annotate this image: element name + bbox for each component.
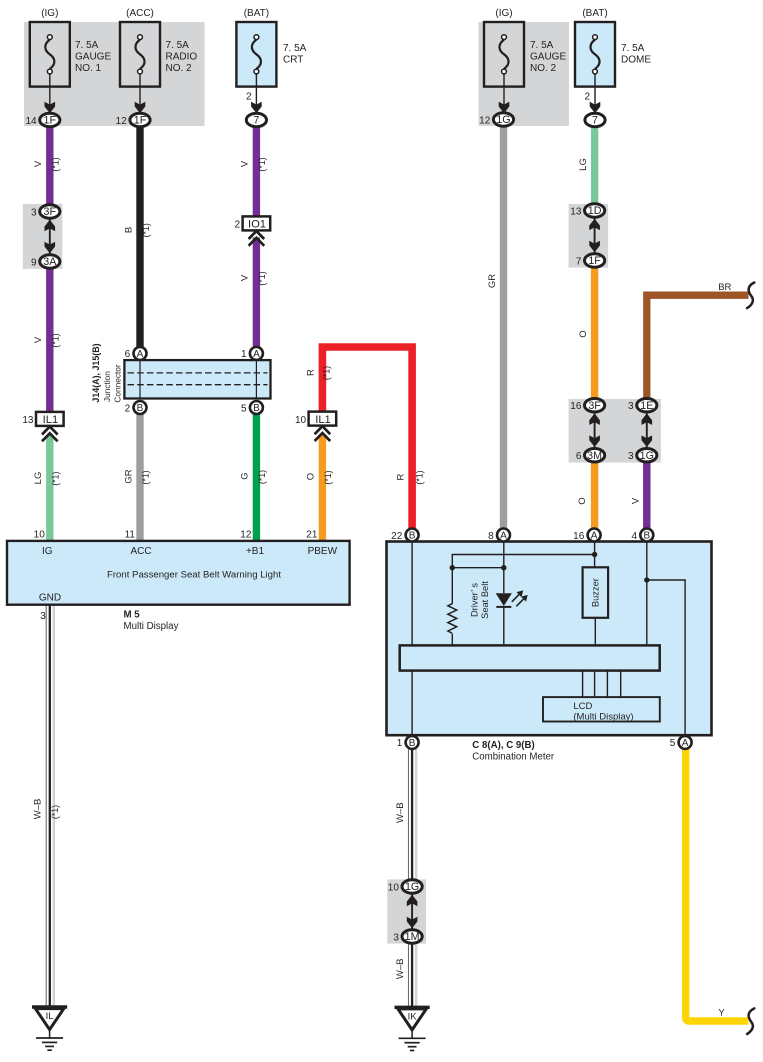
svg-text:1G: 1G — [405, 881, 419, 893]
gray panel behind IG/ACC fuses — [24, 22, 205, 126]
wire V violet: IO1 to junction 1A — [253, 238, 260, 348]
junction node dot on 16A line — [592, 552, 597, 557]
svg-text:(*1): (*1) — [141, 223, 151, 237]
svg-text:(*1): (*1) — [321, 366, 331, 380]
junction connector J14(A), J15(B) body — [124, 360, 270, 398]
connector IL1 right (pin 10) — [309, 412, 337, 426]
svg-text:A: A — [591, 531, 598, 542]
svg-text:10: 10 — [34, 530, 46, 541]
connector pair 1E-1G: arrows between halves — [642, 413, 653, 447]
wire V violet: 3A to IL1 junction — [46, 268, 53, 414]
connector IO1 (pin 2) — [243, 216, 271, 230]
svg-text:Multi Display: Multi Display — [124, 621, 179, 632]
svg-text:B: B — [124, 227, 135, 233]
svg-text:(IG): (IG) — [495, 8, 512, 19]
svg-text:LCD: LCD — [573, 701, 592, 712]
svg-text:16: 16 — [573, 531, 585, 542]
svg-text:(ACC): (ACC) — [126, 8, 154, 19]
break symbol on BR wire — [747, 283, 754, 309]
svg-text:LG: LG — [33, 472, 44, 485]
svg-text:(BAT): (BAT) — [582, 8, 607, 19]
svg-text:(*1): (*1) — [141, 470, 151, 484]
wire BR brown: from break down to 1E — [647, 295, 749, 399]
svg-text:BR: BR — [718, 282, 731, 293]
wire W-B white-black: M5 GND pin 3 to ground IL — [46, 605, 54, 1007]
svg-text:(*1): (*1) — [257, 470, 267, 484]
svg-text:5: 5 — [670, 738, 676, 749]
component C8(A)/C9(B) Combination Meter body — [387, 542, 712, 736]
connector pin 3 of 1E — [637, 399, 657, 412]
svg-text:3M: 3M — [587, 450, 602, 462]
svg-text:(*1): (*1) — [257, 271, 267, 285]
connector pin 12 of 1G — [493, 113, 513, 126]
gray panel behind 1G/1M connector pair — [387, 879, 426, 943]
svg-text:GR: GR — [487, 274, 498, 288]
break symbol on Y wire — [747, 1008, 754, 1034]
svg-text:3: 3 — [628, 401, 634, 412]
connector pin 6 of 3M — [585, 449, 605, 462]
svg-text:V: V — [631, 497, 642, 504]
svg-text:DOME: DOME — [621, 55, 651, 66]
resistor (instrument panel light dimmer) — [451, 568, 453, 604]
svg-text:3F: 3F — [588, 400, 601, 412]
svg-text:1F: 1F — [588, 255, 601, 267]
svg-text:IG: IG — [42, 546, 53, 557]
svg-text:7: 7 — [576, 256, 582, 267]
wire G green: junction 5B to M5 pin 12 +B1 — [253, 413, 260, 541]
svg-text:Driver’ s: Driver’ s — [470, 583, 480, 617]
connector pin 7 of CRT fuse holder — [246, 113, 266, 126]
svg-text:Junction: Junction — [102, 371, 112, 402]
wire O orange: 1F to 3F — [591, 267, 598, 399]
fuse 7.5A DOME (BAT) — [575, 22, 615, 87]
fuse 7.5A GAUGE NO.2 (IG) — [484, 22, 524, 113]
junction node dot at LED branch — [501, 565, 506, 570]
fuse 7.5A GAUGE NO.1 (IG) — [30, 22, 70, 113]
svg-text:CRT: CRT — [283, 55, 303, 66]
svg-text:B: B — [409, 738, 416, 749]
wire LG light green: IL1 to M5 pin 10 IG — [46, 435, 53, 542]
svg-text:3A: 3A — [43, 256, 57, 268]
internal wire: horizontal from 16A node left, corner down — [452, 555, 594, 568]
svg-text:(BAT): (BAT) — [244, 8, 269, 19]
svg-text:(*1): (*1) — [323, 470, 333, 484]
svg-text:Connector: Connector — [113, 364, 123, 403]
svg-text:(*1): (*1) — [257, 157, 267, 171]
pin 4 (B) meter — [640, 529, 653, 542]
svg-text:A: A — [500, 531, 507, 542]
svg-text:1D: 1D — [588, 205, 602, 217]
connector pin 16 of 3F — [585, 399, 605, 412]
svg-text:13: 13 — [570, 206, 582, 217]
svg-text:V: V — [240, 160, 251, 167]
internal wire: node bar between resistor and LED branches — [452, 567, 504, 569]
svg-text:IL1: IL1 — [43, 414, 59, 426]
svg-text:3: 3 — [40, 611, 46, 622]
junction node dot on 4B line — [644, 577, 649, 582]
svg-text:A: A — [682, 738, 689, 749]
svg-text:3: 3 — [31, 207, 37, 218]
svg-text:(Multi Display): (Multi Display) — [573, 711, 633, 722]
svg-text:(*1): (*1) — [51, 472, 61, 486]
svg-text:12: 12 — [240, 530, 252, 541]
svg-text:6: 6 — [576, 451, 582, 462]
svg-text:IL: IL — [46, 1011, 54, 1022]
svg-text:B: B — [409, 531, 416, 542]
ground IL — [32, 1007, 67, 1050]
wire V violet: fuse CRT 7 to IO1 — [253, 126, 260, 216]
LED Driver s Seat Belt indicator — [496, 593, 512, 606]
svg-text:R: R — [396, 473, 407, 480]
svg-text:O: O — [577, 497, 588, 504]
svg-text:1M: 1M — [405, 931, 420, 943]
svg-text:ACC: ACC — [130, 546, 151, 557]
svg-text:1: 1 — [241, 349, 247, 360]
svg-text:Combination Meter: Combination Meter — [472, 751, 555, 762]
chevron under IO1 (pin 2) — [249, 231, 265, 246]
svg-text:LG: LG — [578, 158, 589, 171]
svg-text:7. 5A: 7. 5A — [166, 40, 190, 51]
svg-text:C 8(A), C 9(B): C 8(A), C 9(B) — [472, 740, 534, 751]
svg-text:(*1): (*1) — [51, 157, 61, 171]
svg-text:V: V — [33, 336, 44, 343]
bus to LCD connection lines — [582, 671, 584, 698]
ground IK — [395, 1007, 430, 1050]
wire W-B white-black: meter pin 1B to connector 1G — [409, 748, 417, 880]
svg-text:21: 21 — [306, 530, 318, 541]
connector pin 9 of 3A — [40, 255, 60, 268]
svg-text:NO. 2: NO. 2 — [166, 63, 193, 74]
wire LG light green: fuse DOME 7 to 1D — [591, 126, 598, 204]
svg-text:(*1): (*1) — [50, 805, 60, 819]
gray panel behind 3F/3M and 1E/1G connector pairs — [569, 399, 661, 463]
junction node dot at resistor branch — [450, 565, 455, 570]
svg-text:W–B: W–B — [395, 959, 406, 980]
svg-text:2: 2 — [125, 403, 131, 414]
svg-text:O: O — [578, 330, 589, 337]
wire R red: IL1 up, across, down to meter pin 22B — [322, 347, 412, 530]
connector pin 12 of 1F — [130, 113, 150, 126]
connector pin 7 of DOME fuse holder — [585, 113, 605, 126]
svg-text:7: 7 — [592, 115, 598, 127]
buzzer box — [583, 567, 609, 618]
svg-text:+B1: +B1 — [246, 546, 265, 557]
svg-text:1G: 1G — [496, 114, 510, 126]
pin 2 (B) junction bottom left — [134, 401, 147, 414]
svg-text:Seat Belt: Seat Belt — [480, 581, 490, 619]
LCD (Multi Display) box — [543, 697, 660, 721]
svg-text:7. 5A: 7. 5A — [530, 40, 554, 51]
fuse 7.5A CRT (BAT) — [236, 22, 276, 87]
svg-text:B: B — [253, 403, 260, 414]
pin 5 (B) junction bottom right — [250, 401, 263, 414]
bus bar — [400, 645, 660, 670]
svg-text:W–B: W–B — [33, 799, 44, 820]
svg-text:B: B — [137, 403, 144, 414]
svg-text:3: 3 — [393, 932, 399, 943]
wire Y yellow: meter pin 5A down and right to break — [686, 748, 749, 1021]
svg-text:PBEW: PBEW — [308, 546, 338, 557]
svg-text:5: 5 — [241, 403, 247, 414]
connector pin 7 of 1F — [585, 254, 605, 267]
svg-text:1F: 1F — [44, 115, 57, 127]
svg-text:V: V — [33, 160, 44, 167]
svg-text:GR: GR — [123, 469, 134, 483]
svg-text:R: R — [306, 369, 317, 376]
connector pin 3 of 3F — [40, 205, 60, 218]
internal wire: pin 16A down to buzzer — [594, 541, 596, 567]
svg-text:10: 10 — [388, 882, 400, 893]
connector IL1 left (pin 13) — [36, 412, 64, 426]
pin 6 (A) junction top left — [134, 347, 147, 360]
svg-text:IK: IK — [408, 1011, 418, 1022]
svg-text:11: 11 — [125, 530, 136, 541]
pin 8 (A) meter — [497, 529, 510, 542]
connector pair 1G-1M: arrows between halves — [407, 895, 418, 929]
svg-text:V: V — [240, 274, 251, 281]
connector pin 3 of 1M — [402, 930, 422, 943]
svg-text:(IG): (IG) — [41, 8, 58, 19]
svg-text:GAUGE: GAUGE — [530, 52, 566, 63]
internal wire: pin 22B straight down to pin 1B — [411, 541, 413, 737]
connector pin 3 of 1G — [637, 449, 657, 462]
wire O orange: 3M to meter pin 16A — [591, 462, 598, 530]
svg-text:G: G — [240, 472, 251, 479]
svg-text:M 5: M 5 — [124, 609, 141, 620]
gray panel behind 3F/3A connector pair — [23, 204, 63, 269]
connector pair 3F-3A: arrows between halves — [45, 220, 56, 254]
svg-text:O: O — [306, 473, 317, 480]
connector pin 10 of 1G — [402, 880, 422, 893]
svg-text:7. 5A: 7. 5A — [75, 40, 99, 51]
svg-text:6: 6 — [125, 349, 131, 360]
pin 22 (B) meter — [406, 529, 419, 542]
svg-text:9: 9 — [31, 257, 37, 268]
wire V violet: fuse GAUGE NO.1 1F to 3F — [46, 126, 53, 205]
fuse 7.5A RADIO NO.2 (ACC) — [120, 22, 160, 113]
svg-text:12: 12 — [479, 115, 491, 126]
svg-text:IO1: IO1 — [248, 219, 266, 231]
svg-text:A: A — [253, 349, 260, 360]
svg-text:Buzzer: Buzzer — [590, 578, 600, 607]
connector pin 14 of 1F — [40, 113, 60, 126]
connector pin 13 of 1D — [585, 204, 605, 217]
svg-text:7. 5A: 7. 5A — [621, 43, 645, 54]
svg-text:12: 12 — [116, 116, 128, 127]
connector pair 3F-3M: arrows between halves — [589, 413, 600, 447]
svg-text:2: 2 — [584, 92, 590, 103]
junction connector internal pin lines — [139, 360, 141, 398]
component M5 Front Passenger Seat Belt Warning Light — [7, 541, 350, 605]
wire O orange: IL1 to M5 pin 21 PBEW — [319, 435, 326, 542]
svg-text:RADIO: RADIO — [166, 52, 198, 63]
pin 1 (B) meter bottom — [406, 736, 419, 749]
svg-text:GND: GND — [39, 593, 61, 604]
wire GR gray: junction 2B to M5 pin 11 ACC — [136, 413, 143, 541]
svg-text:4: 4 — [631, 531, 637, 542]
svg-text:A: A — [137, 349, 144, 360]
svg-text:16: 16 — [570, 401, 582, 412]
svg-text:(*1): (*1) — [51, 333, 61, 347]
svg-text:1: 1 — [397, 738, 403, 749]
svg-text:1F: 1F — [134, 115, 147, 127]
svg-text:7. 5A: 7. 5A — [283, 43, 307, 54]
svg-text:Y: Y — [718, 1008, 725, 1019]
wire B black: fuse RADIO NO.2 1F to junction 6A — [136, 126, 143, 347]
svg-text:3: 3 — [628, 451, 634, 462]
svg-text:IL1: IL1 — [315, 414, 331, 426]
svg-text:22: 22 — [391, 531, 403, 542]
internal wire: 4B node right then down to pin 5A — [647, 580, 685, 737]
svg-text:14: 14 — [25, 116, 37, 127]
LED emission arrows — [512, 594, 520, 602]
svg-text:B: B — [643, 531, 650, 542]
chevron under IL1 right (pin 10) — [315, 426, 331, 441]
pin 5 (A) meter bottom — [679, 736, 692, 749]
pin 1 (A) junction top right — [250, 347, 263, 360]
svg-text:J14(A), J15(B): J14(A), J15(B) — [91, 343, 101, 402]
junction connector internal dashed bus lines — [128, 372, 268, 374]
svg-text:(*1): (*1) — [415, 470, 425, 484]
wire W-B white-black: connector 1M to ground IK — [409, 943, 417, 1007]
chevron under IL1 left (pin 13) — [42, 427, 58, 442]
svg-text:2: 2 — [235, 220, 241, 231]
svg-text:7: 7 — [253, 115, 259, 127]
svg-text:1G: 1G — [640, 450, 654, 462]
svg-text:2: 2 — [246, 92, 252, 103]
wire V violet: 1G to meter pin 4B — [643, 462, 650, 530]
svg-text:NO. 2: NO. 2 — [530, 63, 557, 74]
svg-text:1E: 1E — [640, 400, 653, 412]
svg-text:10: 10 — [295, 415, 307, 426]
svg-text:8: 8 — [488, 531, 494, 542]
connector pair 1D-1F: arrows between halves — [589, 219, 600, 253]
pin 16 (A) meter — [588, 529, 601, 542]
svg-text:GAUGE: GAUGE — [75, 52, 111, 63]
gray panel behind 1D/1F connector pair — [569, 204, 609, 268]
svg-text:Front Passenger Seat Belt Warn: Front Passenger Seat Belt Warning Light — [107, 570, 281, 581]
svg-text:W–B: W–B — [395, 802, 406, 823]
wire GR gray: fuse GAUGE NO.2 1G to meter pin 8A — [500, 126, 507, 529]
svg-text:13: 13 — [22, 415, 34, 426]
gray panel behind GAUGE NO.2 fuse — [479, 22, 570, 126]
internal wire: pin 4B down to bus bar — [646, 541, 648, 645]
svg-text:NO. 1: NO. 1 — [75, 63, 102, 74]
internal wire: buzzer to bus bar — [594, 618, 596, 645]
svg-text:3F: 3F — [44, 206, 57, 218]
internal wire: pin 8A down to LED — [503, 541, 505, 593]
